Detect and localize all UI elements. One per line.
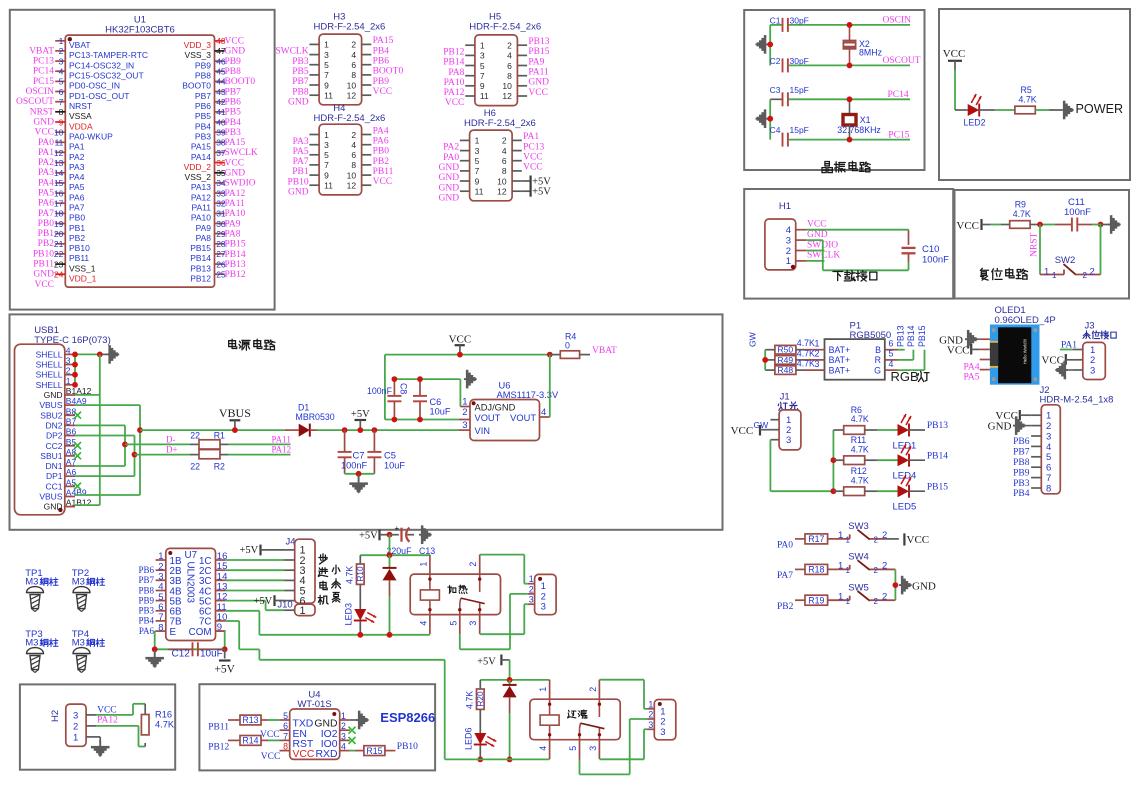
svg-text:VCC: VCC (373, 177, 393, 187)
svg-text:4.7K: 4.7K (155, 720, 175, 730)
svg-text:VBUS: VBUS (219, 406, 251, 420)
svg-text:VCC: VCC (225, 37, 245, 47)
svg-text:R: R (875, 355, 881, 365)
svg-text:+5V: +5V (532, 187, 551, 198)
U1 pin 43 PB7 (195, 87, 226, 101)
svg-text:PB12: PB12 (443, 48, 464, 58)
LED LED1 (893, 414, 917, 452)
net label GND (288, 98, 309, 108)
svg-text:PB10: PB10 (33, 249, 54, 259)
svg-text:GND: GND (439, 173, 460, 183)
svg-text:VCC: VCC (449, 333, 472, 345)
U1 pin 18 PB0 (54, 209, 85, 223)
P1 pin 5 R (875, 349, 898, 366)
wire GW net (764, 350, 766, 370)
svg-text:B8: B8 (66, 406, 77, 416)
svg-text:GND: GND (988, 420, 1012, 432)
net label PB10 (397, 742, 418, 752)
svg-text:R1: R1 (214, 431, 225, 441)
svg-text:PB4: PB4 (138, 616, 154, 626)
svg-text:8: 8 (351, 70, 356, 80)
H4 pin 11 (309, 181, 333, 191)
wire heater top rail (360, 554, 430, 556)
svg-text:C6: C6 (430, 397, 442, 407)
H4 pin 10 (347, 170, 372, 180)
U7 pin 12 5C (199, 592, 227, 608)
H6 pin 7 (460, 166, 480, 176)
LED LED2 (964, 94, 986, 128)
ground (756, 35, 769, 54)
net label PB13 (225, 260, 246, 270)
junction (392, 376, 423, 422)
wire relay pin3 to conn pin3 (480, 604, 528, 634)
svg-text:SWDIO: SWDIO (225, 179, 256, 189)
svg-text:9: 9 (480, 81, 485, 91)
switch SW2 (1040, 255, 1101, 280)
svg-text:E: E (170, 627, 177, 638)
svg-text:PB9: PB9 (373, 77, 390, 87)
svg-text:4: 4 (418, 621, 428, 626)
svg-text:4.7K: 4.7K (465, 691, 475, 709)
svg-text:100nF: 100nF (922, 255, 949, 266)
svg-text:3: 3 (341, 731, 346, 741)
U1 pin 47 VSS_3 (185, 46, 226, 60)
USB1 pin B6 DP2 (46, 427, 77, 441)
H6 pin 4 (502, 146, 522, 156)
svg-text:C3: C3 (770, 85, 781, 95)
ground (107, 345, 120, 364)
svg-text:NRST: NRST (30, 107, 54, 117)
net label BOOT0 (373, 67, 404, 77)
U1 pin 8 VSSA (55, 107, 92, 121)
wire 5C to J10 (226, 601, 285, 611)
net label VBAT (592, 346, 617, 356)
net label PC14 (888, 90, 909, 100)
svg-text:ULN2003: ULN2003 (185, 562, 196, 604)
resistor R4 0 (550, 331, 590, 358)
svg-text:PB12: PB12 (208, 743, 229, 753)
svg-text:HDR-F-2.54_2x6: HDR-F-2.54_2x6 (464, 118, 536, 129)
net label PA5 (38, 189, 54, 199)
connector J3 water level (1083, 321, 1116, 380)
svg-text:30pF: 30pF (790, 16, 809, 26)
svg-text:3: 3 (648, 720, 653, 730)
wire (350, 750, 364, 752)
resistor R1 22 (190, 431, 225, 450)
svg-text:PB10: PB10 (69, 243, 90, 253)
wire (1100, 225, 1102, 275)
resistor R19 (805, 595, 828, 605)
U1 pin 40 PB4 (195, 117, 226, 131)
U1 pin 44 BOOT0 (182, 77, 226, 91)
wire VCC to R16 (96, 704, 145, 715)
capacitor C8 100nF (367, 379, 409, 419)
svg-text:SHELL: SHELL (36, 380, 63, 390)
J4 pin 4 (285, 575, 306, 587)
svg-text:VSS_3: VSS_3 (185, 50, 212, 60)
svg-text:6: 6 (351, 150, 356, 160)
capacitor C4 15pF (770, 125, 809, 147)
svg-text:PA4: PA4 (963, 362, 979, 372)
J4 pin 5 (285, 585, 306, 597)
net label PB4 (138, 616, 154, 626)
svg-text:3: 3 (588, 746, 598, 751)
net label PA15 (373, 36, 394, 46)
wire VOUT pin4 (540, 355, 550, 417)
svg-text:1: 1 (538, 687, 548, 692)
net label PB9 (138, 595, 154, 605)
svg-text:6: 6 (889, 339, 894, 349)
net label PA4 (963, 362, 979, 372)
connector H3 (314, 11, 386, 105)
no-connect IO2 (349, 727, 356, 734)
svg-text:PB6: PB6 (373, 57, 390, 67)
H1 pin 2 (786, 246, 806, 257)
net label PB6 (138, 565, 154, 575)
net label PA12 (225, 189, 246, 199)
capacitor C11 100nF (1055, 197, 1092, 232)
svg-text:PB9: PB9 (1013, 468, 1030, 478)
title crystal circuit (822, 161, 870, 172)
svg-text:PB2: PB2 (777, 602, 794, 612)
svg-text:PA12: PA12 (272, 445, 292, 455)
svg-text:R10: R10 (356, 566, 365, 581)
net label PA12 (444, 88, 465, 98)
ground (756, 109, 769, 128)
net label PA5 (293, 147, 309, 157)
svg-text:VCC: VCC (807, 220, 827, 230)
svg-text:PB6: PB6 (138, 565, 154, 575)
svg-text:PA5: PA5 (38, 189, 54, 199)
svg-text:PA11: PA11 (272, 434, 291, 444)
svg-text:12: 12 (497, 187, 507, 197)
svg-text:2: 2 (588, 687, 598, 692)
net label GND (439, 163, 460, 173)
junction (152, 646, 228, 652)
wire (228, 719, 240, 721)
svg-text:PA7: PA7 (69, 203, 85, 213)
IC U1 HK32F103CBT6 (65, 15, 214, 288)
svg-text:5: 5 (324, 150, 329, 160)
net label PB11 (373, 167, 394, 177)
svg-text:10: 10 (502, 81, 512, 91)
svg-text:H2: H2 (50, 710, 61, 722)
svg-text:SWCLK: SWCLK (225, 148, 258, 158)
H5 pin 12 (502, 91, 527, 101)
svg-text:PA6: PA6 (38, 199, 54, 209)
svg-text:PB15: PB15 (528, 47, 549, 57)
svg-text:1: 1 (838, 561, 843, 572)
svg-text:100nF: 100nF (1064, 207, 1091, 218)
wire conn pin2 to relay pin5 (580, 719, 648, 774)
wire VBUS net (75, 405, 140, 495)
svg-text:7: 7 (480, 71, 485, 81)
svg-text:6: 6 (59, 87, 64, 97)
resistor R17 (805, 534, 828, 544)
svg-text:3: 3 (1090, 365, 1095, 376)
net label GND (439, 194, 460, 204)
net label OSCOUT (883, 56, 921, 66)
svg-text:3: 3 (324, 50, 329, 60)
IC U4 WT-01S (290, 690, 340, 760)
resistor R12 4.7K (833, 466, 869, 496)
resistor R15 (364, 746, 385, 756)
wire NRST down (1039, 225, 1041, 275)
H4 pin 8 (351, 160, 371, 170)
svg-text:1: 1 (418, 562, 428, 567)
capacitor C3 15pF (770, 85, 809, 107)
junction NRST (1037, 222, 1043, 228)
svg-text:4: 4 (786, 225, 791, 236)
net label PB12 (208, 743, 229, 753)
svg-text:VOUT: VOUT (475, 413, 501, 423)
net label PB5 (292, 67, 309, 77)
net label VCC EN (260, 730, 280, 740)
H3 pin 10 (347, 80, 372, 90)
net label PB2 (38, 239, 55, 249)
OLED1 pin 4 (980, 369, 990, 371)
svg-text:11: 11 (480, 91, 489, 101)
USB1 pin B1A12 GND (44, 386, 92, 400)
svg-text:21: 21 (54, 239, 64, 249)
svg-text:B5: B5 (66, 437, 77, 447)
svg-text:BAT+: BAT+ (829, 355, 851, 365)
U4 pin 3 IO0 (321, 731, 350, 750)
wire (261, 739, 280, 741)
net label PB3 (225, 128, 242, 138)
U1 pin 38 PA15 (191, 138, 226, 152)
net label PA11 (225, 199, 246, 209)
svg-text:VCC: VCC (1041, 355, 1064, 367)
svg-text:3: 3 (815, 359, 820, 369)
net label D- (166, 434, 176, 444)
resistor R49 4.7K (775, 348, 815, 365)
net label VCC (34, 280, 54, 290)
H1 pin 3 (786, 235, 806, 246)
U4 pin 6 EN (280, 721, 307, 740)
svg-text:7: 7 (1046, 473, 1051, 484)
svg-text:GW: GW (754, 420, 770, 430)
ground (91, 740, 110, 757)
J3 pin 2 (1073, 355, 1096, 366)
svg-text:PA3: PA3 (69, 162, 85, 172)
svg-text:B: B (875, 345, 881, 355)
U1 pin 10 PA0-WKUP (54, 128, 113, 142)
svg-text:VCC: VCC (225, 158, 245, 168)
svg-text:GND: GND (44, 502, 63, 512)
svg-text:DN2: DN2 (45, 420, 62, 430)
wire filter bottom rail (445, 758, 550, 760)
H4 pin 2 (351, 130, 371, 140)
svg-text:19: 19 (54, 219, 64, 229)
wire (865, 459, 898, 461)
U1 pin 15 PA5 (54, 178, 85, 192)
svg-text:23: 23 (54, 259, 64, 269)
net label PB12 (443, 48, 464, 58)
svg-text:PB15: PB15 (917, 325, 927, 347)
svg-text:VCC: VCC (947, 344, 970, 356)
svg-text:1: 1 (475, 136, 480, 146)
U1 pin 12 PA2 (54, 148, 85, 162)
svg-text:VBAT: VBAT (29, 46, 54, 56)
net label PB15 (225, 240, 246, 250)
net label PB15 (917, 325, 927, 347)
svg-text:PB2: PB2 (373, 157, 390, 167)
H5 pin 1 (465, 41, 485, 51)
net label PB13 (927, 421, 948, 431)
net label PA0 (443, 153, 459, 163)
U1 pin 7 NRST (55, 97, 92, 111)
svg-text:18: 18 (54, 209, 64, 219)
U1 pin 2 PC13-TAMPER-RTC (55, 46, 148, 60)
svg-text:4.7K: 4.7K (345, 566, 355, 584)
svg-text:4: 4 (351, 50, 356, 60)
net label VCC (373, 177, 393, 187)
wire (990, 224, 1010, 226)
svg-text:DN1: DN1 (45, 461, 62, 471)
svg-text:8: 8 (1046, 483, 1051, 494)
J4 pin 3 (285, 565, 306, 577)
svg-text:PB4: PB4 (225, 118, 242, 128)
U1 pin 19 PB1 (54, 219, 85, 233)
net label PA0 (777, 541, 793, 551)
U1 pin 23 VSS_1 (54, 259, 96, 273)
svg-text:BOOT0: BOOT0 (373, 67, 404, 77)
H3 pin 3 (309, 50, 329, 60)
no-connect CC1 (74, 483, 81, 490)
svg-text:1: 1 (815, 339, 820, 349)
wire shell gnd (75, 354, 107, 384)
H5 pin 5 (465, 61, 485, 71)
svg-text:PB8: PB8 (225, 67, 242, 77)
svg-text:+5V: +5V (214, 664, 235, 676)
U7 pin 8 E (156, 622, 177, 638)
U1 pin 20 PB2 (54, 229, 85, 243)
net label PB8 (138, 585, 154, 595)
wire (261, 719, 280, 721)
wire OSCIN (789, 24, 910, 26)
LED LED4 (893, 444, 917, 482)
U1 pin 21 PB10 (54, 239, 90, 253)
svg-text:PA12: PA12 (97, 716, 118, 726)
svg-text:PB14: PB14 (225, 250, 246, 260)
svg-text:PB3: PB3 (1013, 479, 1030, 489)
svg-text:PA10: PA10 (191, 213, 211, 223)
P1 pin 6 B (875, 339, 897, 356)
label water pump (332, 565, 341, 602)
svg-text:J3: J3 (1084, 321, 1094, 332)
J3 pin 1 (1073, 345, 1096, 356)
svg-text:24: 24 (54, 270, 64, 280)
wire (909, 459, 926, 461)
net label PC13 (33, 57, 54, 67)
svg-text:PA2: PA2 (38, 158, 54, 168)
svg-text:PB11: PB11 (373, 167, 394, 177)
svg-text:4: 4 (351, 140, 356, 150)
svg-text:1: 1 (846, 566, 851, 575)
wire (979, 109, 1015, 111)
H3 pin 7 (309, 70, 329, 80)
wire (1092, 224, 1108, 226)
wire (770, 25, 782, 66)
resistor R2 22 (190, 450, 225, 472)
ground (145, 650, 164, 668)
net label PB3 (138, 606, 154, 616)
net label PB11 (33, 260, 54, 270)
svg-text:CC1: CC1 (45, 481, 62, 491)
svg-text:2: 2 (786, 246, 791, 257)
U1 pin 32 PA11 (191, 199, 225, 213)
svg-text:PB15: PB15 (190, 243, 211, 253)
title download port (833, 270, 877, 281)
H5 pin 6 (507, 61, 527, 71)
svg-text:100nF: 100nF (367, 386, 393, 396)
svg-text:PB8: PB8 (138, 585, 154, 595)
relay filter (530, 680, 620, 760)
power flag VCC (731, 425, 771, 437)
net label PC14 (33, 67, 54, 77)
J4 pin 2 (285, 555, 306, 567)
net label VCC (225, 37, 245, 47)
capacitor C1 30pF (770, 16, 809, 32)
U1 pin 28 PB15 (190, 239, 226, 253)
svg-text:LED4: LED4 (893, 471, 917, 482)
ground (1055, 361, 1072, 380)
H3 pin 8 (351, 70, 371, 80)
svg-text:BOOT0: BOOT0 (182, 81, 211, 91)
svg-text:R15: R15 (366, 746, 382, 756)
svg-text:4.7K: 4.7K (851, 444, 869, 454)
net label PB15 (528, 47, 549, 57)
svg-text:7: 7 (283, 731, 288, 741)
svg-text:PA0-WKUP: PA0-WKUP (69, 132, 113, 142)
relay heater (410, 555, 500, 635)
svg-text:1: 1 (1044, 267, 1049, 278)
svg-text:3: 3 (59, 56, 64, 66)
U4 pin 5 TXD (280, 711, 314, 730)
svg-text:PB10: PB10 (287, 177, 308, 187)
svg-text:5: 5 (480, 61, 485, 71)
svg-text:VCC: VCC (260, 730, 280, 740)
svg-text:VCC: VCC (731, 425, 754, 437)
svg-text:15: 15 (54, 178, 64, 188)
capacitor C6 10uF (413, 379, 451, 419)
power flag +5V (359, 530, 390, 542)
capacitor C2 30pF (770, 56, 809, 72)
svg-text:VCC: VCC (907, 534, 930, 546)
U7 pin 13 4C (199, 582, 227, 598)
svg-text:2: 2 (874, 536, 879, 545)
svg-text:GND: GND (33, 270, 54, 280)
RGB driver P1 RGB5050 (825, 320, 892, 379)
U1 pin 45 PB8 (195, 67, 226, 81)
svg-text:PA2: PA2 (443, 143, 459, 153)
net label PB7 (138, 575, 154, 585)
svg-text:1: 1 (648, 699, 653, 709)
svg-text:PB9: PB9 (225, 57, 242, 67)
svg-text:1: 1 (1052, 271, 1057, 280)
LED LED6 (464, 727, 497, 759)
svg-text:1: 1 (838, 530, 843, 541)
svg-text:4: 4 (341, 742, 346, 752)
no-connect CC2 (74, 442, 81, 449)
svg-text:1: 1 (341, 711, 346, 721)
connector H6 (464, 108, 536, 201)
svg-text:4: 4 (507, 51, 512, 61)
svg-text:3: 3 (468, 621, 478, 626)
svg-text:R49: R49 (777, 355, 793, 365)
svg-text:5: 5 (59, 77, 64, 87)
